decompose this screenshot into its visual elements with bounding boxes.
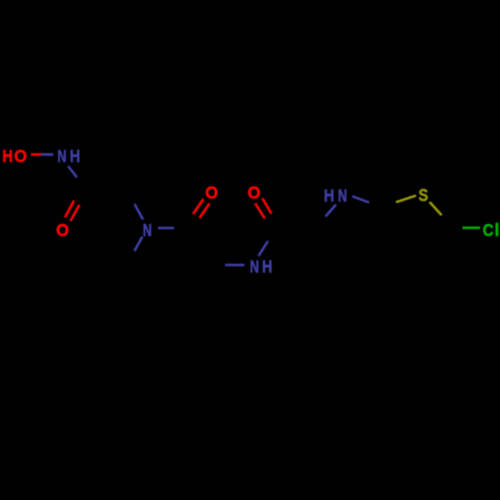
bond O-N (red half) — [31, 153, 41, 156]
svg-text:O: O — [14, 146, 27, 166]
double bond C=O mid-left, outer line — [193, 199, 204, 214]
svg-text:O: O — [205, 183, 218, 203]
svg-text:N: N — [338, 185, 347, 205]
double bond C=O mid-left, inner line — [200, 204, 210, 219]
bond N-C(=O) right (blue half) — [158, 227, 174, 230]
svg-text:H: H — [324, 185, 334, 205]
bond HN-C7a right (blue half) — [352, 196, 369, 202]
svg-text:H: H — [70, 146, 80, 166]
bond S-C2' right (olive half) — [430, 202, 442, 215]
double bond C=O left, inner line — [70, 205, 79, 221]
bond S-C7a left (olive half) — [396, 196, 416, 203]
svg-text:H: H — [2, 146, 12, 166]
bond CH-NH horizontal (blue half) — [225, 264, 244, 267]
bond NH-C(=O) up-right (blue half) — [259, 241, 269, 256]
double bond C=O mid-right, left line — [255, 203, 265, 218]
bond N-CH2 up-left (blue half) — [135, 204, 144, 220]
svg-text:N: N — [143, 220, 152, 240]
svg-text:H: H — [262, 257, 272, 277]
svg-text:C: C — [483, 220, 494, 240]
bond N-CH3 down-left (blue half) — [134, 237, 142, 251]
bond C-Cl (green) — [463, 227, 481, 230]
svg-text:O: O — [248, 183, 261, 203]
bond NH-C(=O) (blue half) — [68, 166, 77, 177]
double bond C=O mid-right, right line — [262, 198, 271, 214]
svg-text:N: N — [57, 146, 66, 166]
svg-text:l: l — [494, 220, 499, 240]
svg-text:N: N — [250, 257, 259, 277]
bond O-N (blue half) — [41, 153, 53, 156]
svg-text:S: S — [418, 185, 428, 205]
double bond C=O left, outer line — [65, 201, 74, 218]
svg-text:O: O — [56, 220, 69, 240]
bond HN-C2 down-left (blue half) — [326, 205, 337, 217]
